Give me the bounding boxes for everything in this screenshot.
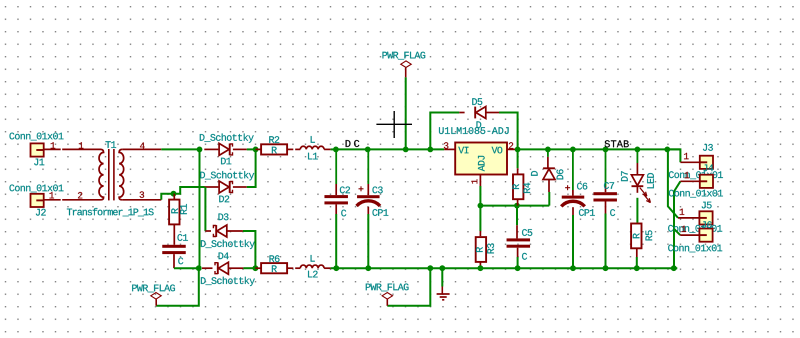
label R (R4) xyxy=(512,184,519,189)
capacitor C5 xyxy=(516,206,518,226)
wire pwr-flag riser BL xyxy=(156,268,199,306)
wire L1 to rail xyxy=(331,148,336,150)
label L2 xyxy=(308,271,318,278)
junction C7 bottom xyxy=(603,265,609,271)
wire VO rail xyxy=(518,148,681,150)
pin 4 T1 xyxy=(140,143,145,149)
label J1 xyxy=(34,159,44,166)
wire pin4 to rail xyxy=(161,148,199,150)
resistor R1 xyxy=(173,194,175,200)
junction PWR top xyxy=(403,147,409,153)
label LED xyxy=(647,173,654,188)
junction J riser xyxy=(664,147,670,153)
capacitor C6 plus xyxy=(565,187,570,189)
pin 3 T1 xyxy=(140,191,145,198)
inductor L2 xyxy=(295,267,300,269)
wire D1 to junction xyxy=(247,148,256,150)
resistor R5 xyxy=(636,198,638,223)
wire D5 left riser xyxy=(430,113,459,150)
label R (R3) xyxy=(476,247,483,252)
label CP1 (C6) xyxy=(579,209,595,216)
label J6 xyxy=(702,221,712,228)
wire STAB to J3 xyxy=(667,149,680,162)
diode D3 xyxy=(205,230,211,232)
diode D4 xyxy=(202,267,213,269)
wire pin3 riser xyxy=(161,194,173,200)
label D7 xyxy=(621,171,628,181)
label Conn_01x01 (J4) xyxy=(669,190,723,198)
junction J right bottom xyxy=(671,265,677,271)
label Conn_01x01 (J6) xyxy=(668,245,722,253)
junction bottom pin4 node xyxy=(196,265,202,271)
wire D2-D3 vertical xyxy=(204,187,206,231)
cursor crosshair xyxy=(376,123,412,125)
pin name ADJ xyxy=(478,156,485,171)
pin name VI xyxy=(458,147,468,154)
label Conn_01x01 (J5) xyxy=(668,225,722,233)
label C (C7) xyxy=(610,209,615,216)
junction C7 top xyxy=(603,147,609,153)
pin 1 J6 xyxy=(682,226,687,232)
junction D6 top xyxy=(545,147,551,153)
label J4 xyxy=(703,165,713,172)
label C5 xyxy=(522,229,532,236)
label CP1 (C3) xyxy=(373,209,389,216)
wire C2 bottom xyxy=(335,214,337,268)
label C7 xyxy=(604,182,614,189)
label C6 xyxy=(577,183,587,190)
power flag PWR_FLAG (mid) xyxy=(386,299,388,306)
junction ADJ-R3 xyxy=(478,203,484,209)
pin 1 J1 xyxy=(51,142,56,148)
label C2 xyxy=(340,187,350,194)
label PWR_FLAG (top) xyxy=(383,52,426,60)
label R (R1) xyxy=(171,208,178,213)
junction D7 top xyxy=(635,147,641,153)
pin 2 T1 xyxy=(78,192,82,198)
junction D5 left xyxy=(427,147,433,153)
pin 1 J2 xyxy=(50,192,55,198)
label D1 xyxy=(221,158,231,165)
label J2 xyxy=(36,209,46,216)
junction C6 bottom xyxy=(570,265,576,271)
label R3 xyxy=(487,243,494,253)
wire vertical pin4 node xyxy=(199,149,201,268)
wire D5 right riser xyxy=(499,113,518,150)
diode D5 xyxy=(459,112,464,114)
label L1 xyxy=(308,153,318,160)
wire D3 anode down xyxy=(243,231,256,268)
junction C5 bottom xyxy=(515,265,521,271)
label U1 LM1085-ADJ xyxy=(439,127,509,134)
junction pin3 node xyxy=(171,191,177,197)
label R (R6) xyxy=(272,265,277,272)
power flag PWR_FLAG (left) xyxy=(155,299,157,306)
wire STAB to J5 xyxy=(668,149,678,218)
label R5 xyxy=(646,230,653,240)
label Transformer_1P_1S xyxy=(67,208,154,216)
diode D7 LED xyxy=(636,149,638,163)
resistor R6 xyxy=(255,267,261,269)
junction R3 bottom xyxy=(478,265,484,271)
connector J6 xyxy=(680,234,699,236)
junction C6 top xyxy=(570,147,576,153)
wire L2 to rail xyxy=(331,267,337,269)
label PWR_FLAG (left) xyxy=(132,285,175,293)
wire pwr-flag top xyxy=(405,77,407,149)
capacitor C7 xyxy=(605,149,607,186)
connector J2 xyxy=(31,194,44,207)
label D_Schottky (D2) xyxy=(200,171,254,180)
diode D1 xyxy=(204,148,218,150)
label D_Schottky (D4) xyxy=(201,277,255,286)
label D (D5) xyxy=(477,121,482,128)
ground xyxy=(441,268,443,286)
label T1 xyxy=(106,141,117,148)
wire DC rail xyxy=(336,148,444,150)
junction C3 top xyxy=(365,147,371,153)
capacitor C2 xyxy=(335,149,337,184)
junction R5 bottom xyxy=(634,265,640,271)
wire ADJ net xyxy=(479,186,481,206)
capacitor C3 plus xyxy=(359,188,364,190)
junction VO xyxy=(515,147,521,153)
junction C2 top xyxy=(333,147,339,153)
regulator U1 LM1085-ADJ xyxy=(444,148,455,150)
label PWR_FLAG (mid) xyxy=(366,284,409,292)
wire pwr-flag mid xyxy=(387,268,430,306)
wire D2 cathode up xyxy=(247,149,256,187)
inductor L1 xyxy=(295,148,300,150)
label Conn_01x01 (J3) xyxy=(669,171,723,179)
diode D6 xyxy=(547,149,549,157)
pin 3 U1 xyxy=(444,142,449,149)
label Conn_01x01 (J2) xyxy=(10,185,64,193)
resistor R4 xyxy=(517,149,519,168)
label L (L1) xyxy=(311,136,315,143)
label C3 xyxy=(373,187,383,194)
power flag PWR_FLAG (top) xyxy=(405,68,407,78)
label D_Schottky (D3) xyxy=(201,240,255,249)
connector J1 xyxy=(31,143,44,156)
label R2 xyxy=(269,136,279,143)
wire GND rail xyxy=(336,267,677,269)
label J3 xyxy=(703,144,713,151)
pin 1 U1 (ADJ) xyxy=(471,179,477,183)
label D_Schottky (D1) xyxy=(200,134,254,143)
capacitor C1 xyxy=(162,245,186,248)
pin 1 J5 xyxy=(680,209,685,215)
label C (C1) xyxy=(178,258,183,265)
pin 1 J4 xyxy=(685,172,690,178)
label C (C2) xyxy=(341,210,346,217)
connector J4 xyxy=(680,180,699,182)
pin 1 T1 xyxy=(79,142,84,148)
label L (L2) xyxy=(311,255,315,262)
transformer T1 xyxy=(62,148,100,150)
label R4 xyxy=(524,183,531,193)
label D6 xyxy=(557,169,564,179)
label DC xyxy=(346,140,360,147)
wire R3 drop xyxy=(479,206,481,231)
label Conn_01x01 (J1) xyxy=(10,133,64,141)
capacitor C3 xyxy=(367,149,369,184)
junction top D1 branch xyxy=(197,147,203,153)
pin 2 U1 xyxy=(509,142,513,148)
junction C3 bottom xyxy=(365,265,371,271)
capacitor C6 xyxy=(572,149,574,190)
junction D1 cathode xyxy=(253,147,259,153)
pin name VO xyxy=(492,147,503,154)
label R6 xyxy=(270,255,280,262)
wire C3 bottom xyxy=(367,214,369,268)
label J5 xyxy=(702,202,712,209)
label C (C5) xyxy=(522,253,527,260)
label R (R5) xyxy=(633,233,640,238)
wire D4 to junction xyxy=(243,267,255,269)
junction PWR mid xyxy=(427,265,433,271)
label R (R2) xyxy=(272,147,277,154)
junction ADJ-R4 xyxy=(514,203,520,209)
junction D3-D4 anodes xyxy=(253,265,259,271)
wire pin3 to D2 row xyxy=(174,187,205,194)
label D3 xyxy=(219,213,229,220)
junction C2 bottom xyxy=(333,265,339,271)
resistor R2 xyxy=(256,148,262,150)
label D2 xyxy=(219,196,229,203)
wire C1 to node xyxy=(174,267,198,269)
wire J4 drop xyxy=(674,181,680,268)
diode D2 xyxy=(205,186,219,188)
label STAB xyxy=(605,140,629,147)
connector J5 xyxy=(678,217,699,219)
pin 1 J3 xyxy=(684,153,689,159)
junction GND xyxy=(439,265,445,271)
label R1 xyxy=(180,204,187,214)
label D5 xyxy=(472,98,482,105)
label D (D6) xyxy=(531,171,538,176)
connector J3 xyxy=(680,161,699,163)
wire J6 drop xyxy=(674,229,680,235)
label D4 xyxy=(219,253,229,260)
label C1 xyxy=(178,234,188,241)
resistor R3 xyxy=(479,231,481,236)
